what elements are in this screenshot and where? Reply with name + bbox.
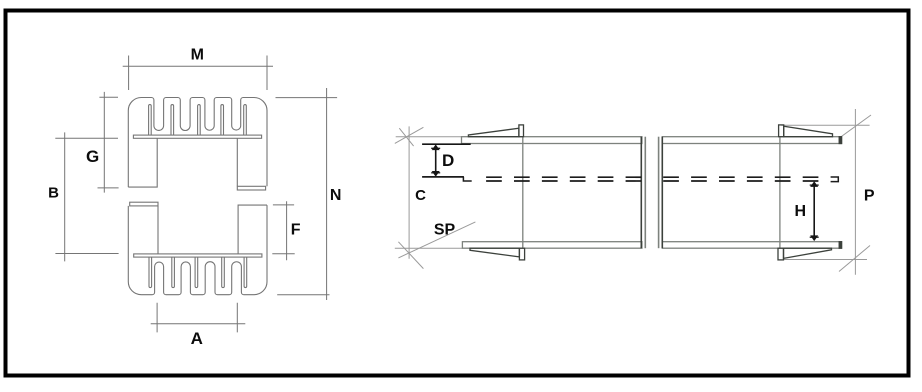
C dimension line bbox=[408, 126, 410, 258]
thin extension lines & diagonals bbox=[395, 109, 871, 275]
chain link plates bbox=[462, 137, 842, 249]
top-left diagonal / bbox=[395, 127, 424, 143]
pin head top extension bbox=[781, 124, 869, 126]
bottom plate bottom edge extension bbox=[395, 247, 463, 249]
dim N bbox=[276, 88, 338, 300]
right link pin bbox=[779, 137, 781, 249]
bottom-left diagonal \ bbox=[398, 242, 423, 269]
slit 4 bbox=[221, 105, 224, 136]
dim A bbox=[151, 303, 246, 333]
svg-text:A: A bbox=[191, 329, 203, 348]
right link top plate bbox=[662, 137, 841, 144]
D dimension bbox=[422, 144, 471, 177]
D top tick bbox=[422, 143, 471, 145]
left link centerline lower dashes bbox=[486, 180, 641, 182]
right link top wedge bbox=[784, 126, 833, 137]
slit 5 bbox=[244, 105, 247, 136]
SP leader diagonal bbox=[398, 222, 475, 258]
right link bottom wedge bbox=[784, 248, 832, 258]
right link end bar inner (dark) bbox=[661, 137, 663, 249]
P dimension line bbox=[854, 109, 856, 275]
right link end bar outer bbox=[658, 137, 660, 249]
left link pin bbox=[522, 137, 524, 249]
comb plate upper half bbox=[128, 98, 267, 191]
dim F bbox=[272, 201, 294, 260]
left link top wedge bbox=[468, 128, 519, 137]
left link top plate bbox=[462, 137, 642, 144]
right leg inner edge bbox=[236, 138, 238, 186]
svg-text:F: F bbox=[291, 221, 301, 238]
dashed center lines bbox=[422, 177, 838, 182]
D arrow line bbox=[435, 147, 437, 175]
svg-text:H: H bbox=[795, 203, 807, 220]
left link pin head bottom bbox=[519, 248, 524, 260]
svg-text:D: D bbox=[442, 151, 454, 170]
left link bottom wedge bbox=[470, 248, 519, 257]
svg-text:B: B bbox=[48, 184, 59, 201]
dim G bbox=[98, 92, 119, 193]
D bottom tick / centerline start (solid) bbox=[422, 176, 464, 178]
slit 3 bbox=[198, 105, 201, 136]
left link pin head top bbox=[519, 125, 524, 137]
left link end bar outer bbox=[644, 137, 646, 249]
svg-text:G: G bbox=[86, 147, 99, 166]
plate outline with teeth bbox=[128, 98, 267, 188]
svg-text:SP: SP bbox=[434, 222, 456, 239]
svg-text:C: C bbox=[415, 187, 426, 204]
svg-text:N: N bbox=[330, 187, 342, 204]
comb plate lower half (180 deg rotated copy) bbox=[128, 202, 267, 295]
dim M bbox=[123, 56, 273, 91]
pin head bottom extension bbox=[784, 259, 868, 261]
right link bottom plate bbox=[662, 242, 841, 249]
cross bar bbox=[133, 135, 261, 138]
right link top plate end cap bbox=[839, 137, 841, 144]
right link centerline lower dashes bbox=[663, 180, 820, 182]
right link pin head top bbox=[779, 125, 784, 137]
right link centerline upper dashes bbox=[663, 176, 820, 178]
left leg inner edge bbox=[128, 138, 157, 187]
top-left diagonal \ bbox=[399, 128, 413, 146]
bottom-right diagonal bbox=[839, 246, 870, 272]
svg-text:M: M bbox=[191, 47, 204, 64]
slit 1 bbox=[149, 105, 152, 135]
right link pin head bottom bbox=[778, 248, 784, 260]
left link bottom plate bbox=[462, 242, 642, 249]
svg-text:P: P bbox=[864, 187, 875, 204]
left link centerline upper dashes bbox=[486, 176, 641, 178]
centerline hook step bbox=[463, 177, 471, 181]
right leg foot bbox=[237, 186, 265, 190]
left link end bar inner (dark) bbox=[640, 137, 642, 249]
slit 2 bbox=[171, 105, 174, 136]
D arrowheads bbox=[432, 144, 440, 150]
right link bottom plate end cap bbox=[839, 242, 841, 249]
centerline end box (open left) bbox=[831, 177, 839, 182]
dim B bbox=[55, 132, 118, 261]
top-right diagonal bbox=[840, 115, 871, 138]
top plate top edge extension bbox=[396, 136, 462, 138]
H dimension bbox=[810, 181, 819, 241]
